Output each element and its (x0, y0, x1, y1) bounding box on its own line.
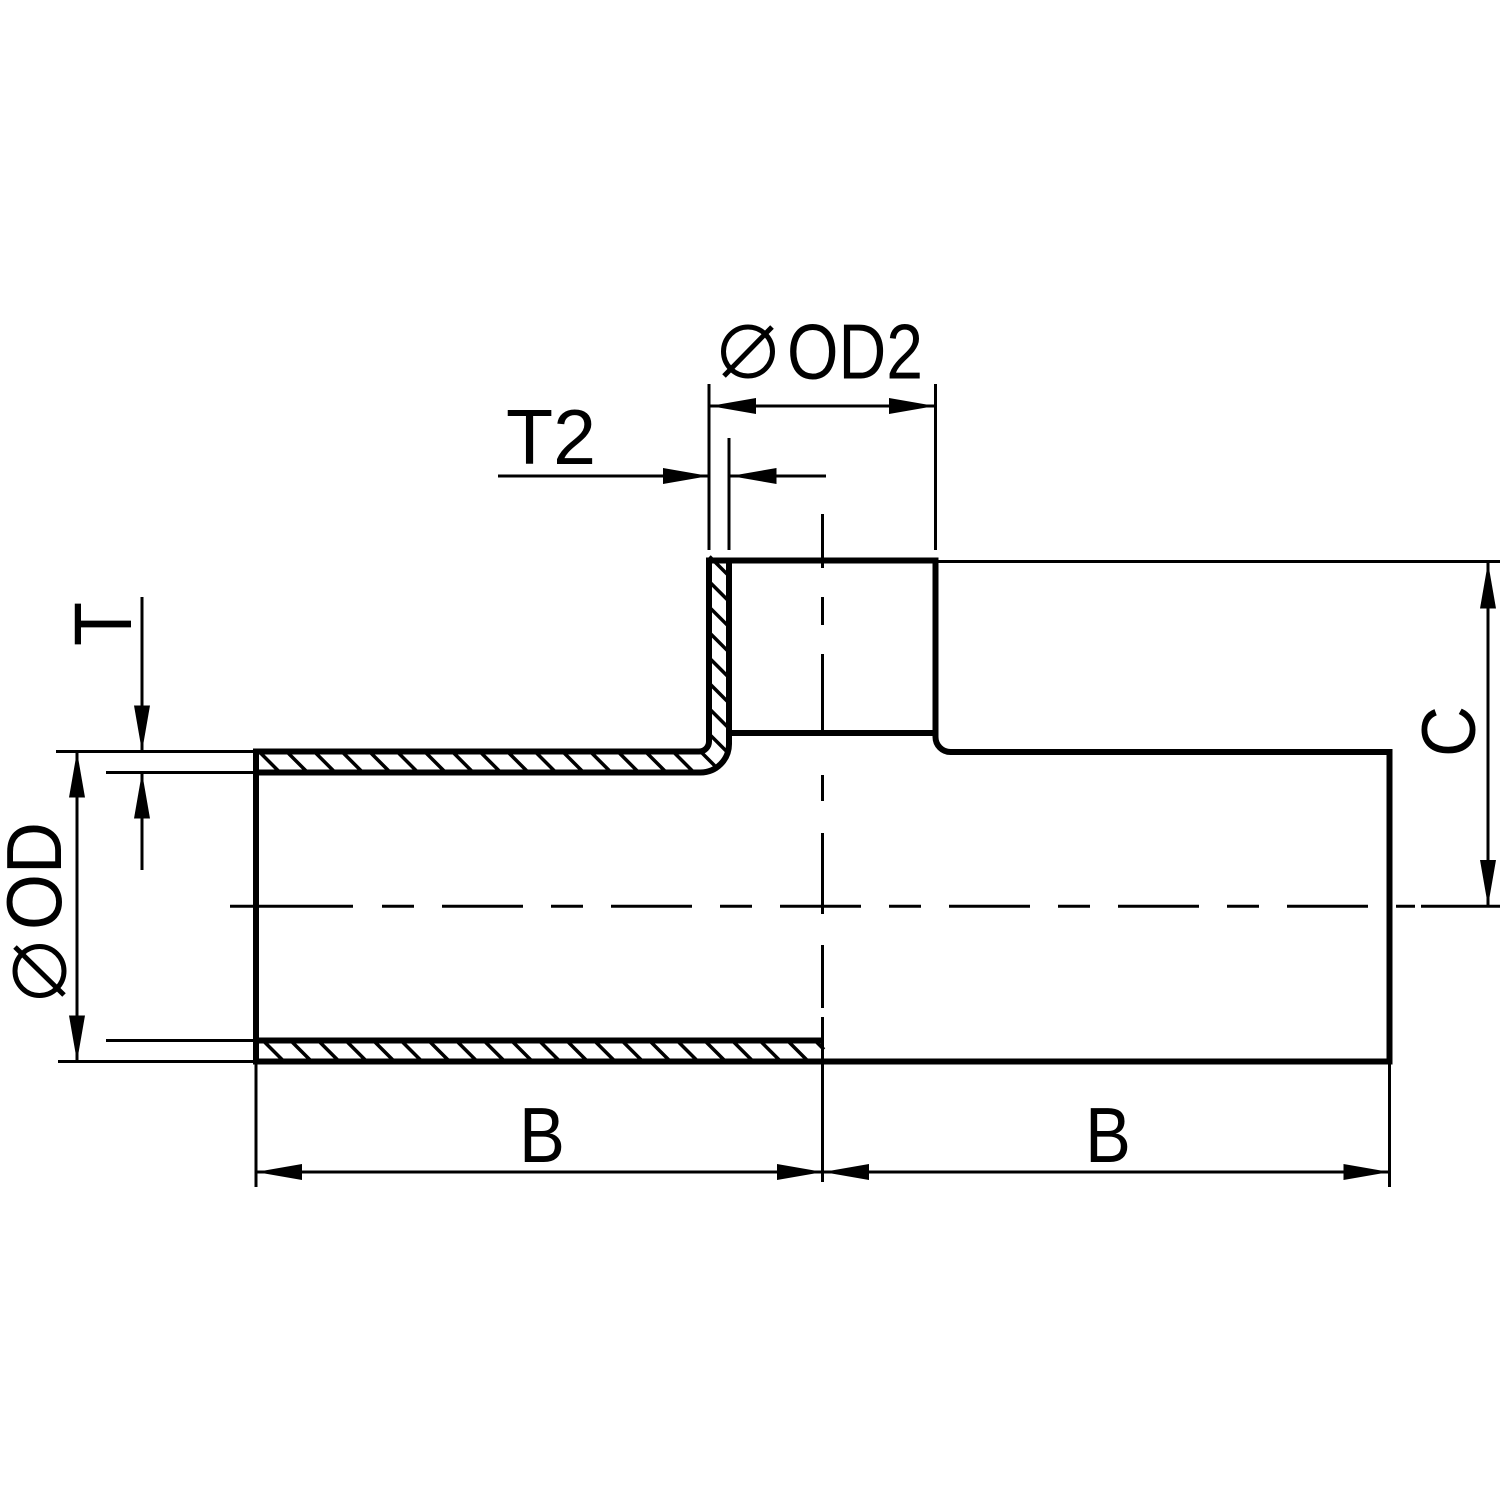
dimension line B left (256, 1171, 823, 1174)
hatching of branch fillet corner section (700, 734, 727, 767)
extension line branch top edge to the right (938, 560, 1500, 563)
extension line bottom inner surface left (106, 1039, 256, 1042)
svg-text:T: T (58, 602, 149, 646)
dimension line C (1487, 563, 1490, 906)
arrowhead OD bottom (69, 1016, 85, 1062)
extension line top inner surface left (106, 771, 256, 774)
extension line branch right wall up (934, 384, 937, 550)
arrowhead B right inner (823, 1164, 869, 1180)
arrowhead T lower (134, 773, 150, 819)
run pipe horizontal centerline (dash-dot) (382, 905, 1390, 908)
label OD (rotated, with diameter symbol) (0, 822, 78, 996)
extension line bottom outer surface left (58, 1060, 256, 1063)
svg-text:B: B (1085, 1091, 1131, 1179)
bottom inner bore surface (sectioned left half) (256, 1038, 824, 1044)
diameter symbol of OD2 label (724, 327, 773, 376)
hatching of top wall section (259, 752, 694, 773)
svg-text:B: B (519, 1091, 565, 1179)
arrowhead C bottom (1480, 860, 1496, 906)
extension line pipe right end down (1388, 1065, 1391, 1188)
svg-text:OD: OD (0, 822, 78, 930)
T2 leader right (731, 475, 827, 478)
arrowhead B left inner (777, 1164, 823, 1180)
run pipe horizontal centerline (dash-dot) left solid lead (230, 905, 353, 908)
T2 leader left (498, 475, 709, 478)
top inner bore surface and branch inner wall (sectioned left half) (256, 561, 729, 773)
branch to run junction line (729, 730, 936, 736)
dimension line OD2 (710, 405, 935, 408)
arrowhead OD top (69, 752, 85, 798)
arrowhead T2 left (663, 468, 709, 484)
hatching of bottom wall section (263, 1041, 824, 1062)
arrowhead OD2 right (889, 398, 935, 414)
arrowhead T2 right (731, 468, 777, 484)
dimension line OD (76, 752, 79, 1061)
extension line branch inner left wall up (728, 438, 731, 550)
dimension line T upper (141, 597, 144, 752)
arrowhead C top (1480, 563, 1496, 609)
svg-text:T2: T2 (506, 393, 596, 481)
branch vertical centerline (dash-dot) (821, 514, 824, 1182)
arrowhead T upper (134, 706, 150, 752)
arrowhead B left outer (256, 1164, 302, 1180)
extension line pipe left end down (255, 1065, 258, 1188)
arrowhead OD2 left (710, 398, 756, 414)
tee body outer outline (run pipe with reduced branch outlet) (256, 561, 1390, 1062)
extension line top outer surface left (56, 750, 256, 753)
arrowhead B right outer (1344, 1164, 1390, 1180)
run pipe horizontal centerline right end / C dim extension (1396, 905, 1500, 908)
extension line branch outer left wall up (708, 384, 711, 550)
dimension line T lower (141, 773, 144, 871)
svg-text:C: C (1407, 706, 1492, 757)
svg-text:OD2: OD2 (787, 308, 923, 396)
dimension line B right (823, 1171, 1390, 1174)
hatching of branch left wall section (710, 557, 730, 729)
